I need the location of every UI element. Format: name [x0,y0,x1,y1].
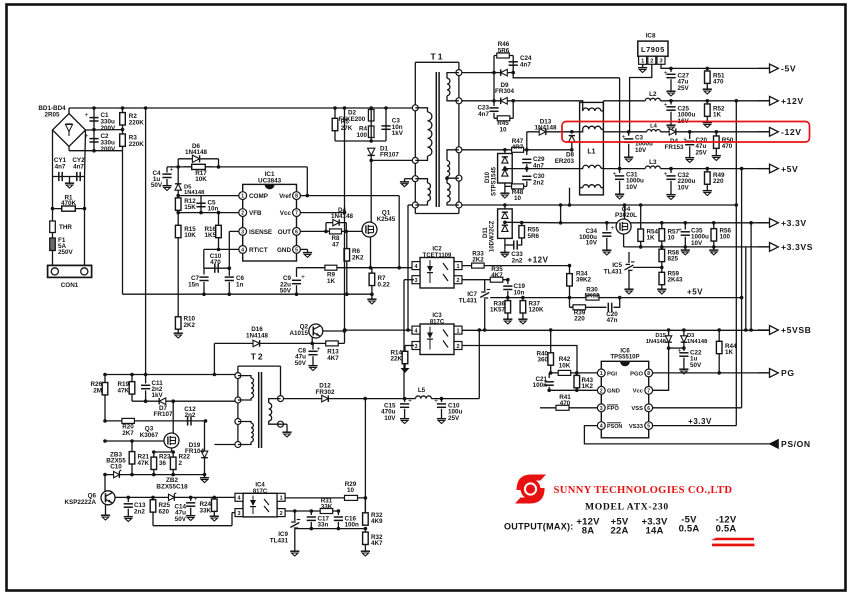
capacitor C7 [199,277,208,280]
capacitor CY2 [77,172,80,181]
pin 8 [293,192,301,200]
junction [293,509,297,513]
wire L1 exit jog [601,129,604,132]
wire GND row [549,389,597,391]
rectifier D11 10DWJ2CZ body [498,209,513,239]
pin 5 [293,246,301,254]
wire C4 gnd stem [166,179,168,183]
inductor L3 [645,166,660,169]
wire T1 aux bot stub [415,201,427,205]
wire Q6 collector [104,475,106,491]
resistor R47 [505,149,527,151]
svg-text:10V: 10V [635,147,647,154]
svg-text:4n7: 4n7 [478,111,489,118]
resistor R37 [520,298,526,316]
inductor L5 [416,396,432,399]
ground IC9 [290,548,299,556]
resistor R15 [175,213,181,238]
wire T1 sec2 top stub [447,150,459,161]
junction [203,473,207,477]
svg-text:STPS1545: STPS1545 [492,166,498,196]
svg-text:10K: 10K [559,362,571,369]
wire to R1 right [84,177,86,209]
svg-text:TPS5510P: TPS5510P [610,355,639,361]
svg-text:3: 3 [659,59,662,65]
diode D11a [502,212,508,218]
svg-text:FR107: FR107 [154,411,173,418]
wire to L5 [405,398,416,400]
svg-text:1N4148: 1N4148 [331,213,354,220]
capacitor C21 [545,382,554,385]
capacitor C3b [622,133,634,142]
svg-text:3: 3 [414,278,417,284]
wire R30 out [604,297,620,299]
wire IC4 pin2 row [285,510,338,512]
svg-text:4: 4 [600,424,603,430]
junction [369,139,373,143]
output -12V [758,127,778,136]
ground R51 [703,86,712,94]
wire T2 sec gnd stub [281,423,288,425]
resistor R33 [472,263,485,268]
wire C20 gnd stem [689,146,691,154]
wire T2 top edge [238,365,281,367]
svg-text:100: 100 [720,234,731,241]
resistor R49 [705,169,711,188]
capacitor C6 [225,277,234,280]
svg-text:1K57: 1K57 [490,307,506,314]
capacitor C3 [381,126,390,129]
svg-text:SUNNY TECHNOLOGIES CO.,LTD: SUNNY TECHNOLOGIES CO.,LTD [554,485,733,496]
transistor Q2 A1015 [309,324,323,338]
svg-text:10: 10 [499,126,507,133]
junction [324,230,328,234]
svg-text:+: + [664,101,668,109]
capacitor C32 [664,170,676,179]
junction [204,419,208,423]
junction [549,371,553,375]
wire 5VSB riser [478,330,480,399]
wire IC8 out [661,64,671,68]
svg-text:2: 2 [241,211,244,217]
junction [682,346,686,350]
ground CY [65,180,74,188]
svg-text:2n2: 2n2 [512,257,523,264]
resistor R17 [184,164,213,169]
wire C33 left [505,244,514,246]
ground R10 [174,330,183,338]
pin 6 [645,404,653,412]
wire C25 gnd stem [670,112,672,122]
svg-text:47: 47 [332,241,340,248]
wire pin4 RTCT row [204,248,243,250]
wire C6 column [228,231,230,275]
svg-text:2K2: 2K2 [184,322,196,329]
junction [130,439,134,443]
wire Q3 source [171,448,173,452]
wire L1 entry jog [580,167,583,169]
svg-text:+12V: +12V [528,256,549,265]
wire C27 stem [670,68,672,72]
resistor R9 [325,265,337,270]
pin 8 [645,369,653,377]
junction [575,389,579,393]
junction [345,292,349,296]
svg-text:200V: 200V [101,125,117,132]
svg-text:1N4148: 1N4148 [646,339,667,345]
junction [310,527,314,531]
inductor L1 body [580,102,604,194]
wire to CON1 right [84,209,86,266]
wire C14 stem [190,497,192,501]
svg-text:0.5A: 0.5A [716,524,737,535]
junction [520,221,524,225]
wire C3b stem [628,132,630,136]
wire source row [154,451,173,453]
svg-text:4n7: 4n7 [520,61,531,68]
wire L1 exit jog [601,187,604,189]
junction [688,130,692,134]
ground C27 [666,88,675,96]
wire PSON net [584,426,769,444]
svg-text:Vcc: Vcc [633,389,644,395]
svg-text:IC6: IC6 [620,348,630,354]
junction [369,106,373,110]
svg-text:PS/ON: PS/ON [781,439,811,449]
svg-text:3: 3 [241,229,244,235]
junction [144,399,148,403]
wire IC5 anode [628,271,630,286]
svg-text:UC3843: UC3843 [258,178,282,185]
wire to IC4 pin3 [153,525,232,527]
wire C3b gnd stem [628,144,630,154]
svg-text:220K: 220K [129,120,145,127]
svg-text:470: 470 [560,400,571,407]
ground C20 [685,155,694,163]
svg-text:L4: L4 [650,124,658,130]
resistor R30 [588,297,604,299]
resistor R48 [512,184,524,189]
junction [667,328,671,332]
wire T2 sec bot stub [269,421,281,424]
capacitor C16 [334,517,343,520]
svg-text:L2: L2 [649,91,657,98]
wire Q2 base stem [311,337,313,343]
wire T1 core b [438,72,440,207]
svg-text:15n: 15n [188,282,199,289]
wire sec1 row [462,72,494,74]
wire D13 left leg [526,132,528,150]
red underline 1 [711,538,754,541]
winding T1 secondary 3 [447,183,450,202]
wire VS33 row [653,425,737,427]
diode D5 [175,184,181,190]
junction [363,397,367,401]
wire to R1 left [52,177,54,209]
wire to C31 riser [513,73,619,78]
junction [682,328,686,332]
svg-text:3: 3 [414,344,417,350]
transformer T1 left pins [412,105,418,111]
capacitor C33 [514,240,517,249]
svg-text:+: + [170,166,174,174]
wire HV+ bus [69,107,413,109]
ground C4 [162,183,171,191]
shunt IC7 TL431 [480,290,490,299]
junction [547,389,551,393]
ground R14 [401,365,410,373]
wire [507,72,513,74]
wire T1 sec2 bot stub [447,177,459,179]
resistor R10 [175,316,181,330]
wire C30 bottom [526,181,528,186]
wire T1 bottom edge [415,213,459,215]
wire C31 riser [619,78,621,169]
svg-text:1n: 1n [236,282,244,289]
wire D8 bottom [571,142,573,150]
junction [503,167,507,171]
svg-text:100: 100 [356,132,367,139]
wire T1 pin stub [408,204,412,206]
wire R39 stub [570,306,574,308]
wire T1 sec3 top stub [446,178,448,183]
resistor R7 [369,268,375,291]
wire IC4 pin3 riser [231,513,233,526]
wire +5V rail a [603,168,645,170]
junction [715,130,719,134]
wire IC5 row [633,266,662,268]
capacitor C1 [85,111,99,121]
wire -5V rail [661,67,770,69]
output -5V [758,64,778,73]
wire T2 w2 top stub [238,422,251,424]
wire +3.3VS rail [624,246,770,248]
svg-text:GND: GND [607,389,620,395]
svg-text:36: 36 [159,460,167,467]
capacitor C2 [85,132,99,142]
junction [575,371,579,375]
junction [706,67,710,71]
svg-text:6: 6 [295,229,298,235]
resistor R13 [312,342,344,344]
svg-text:1K: 1K [725,349,734,356]
svg-text:4n7: 4n7 [73,164,84,171]
ground R56 [709,247,718,255]
resistor R40 [548,330,554,373]
capacitor C17 [307,517,316,520]
ground C35 [681,247,690,255]
rectifier D10 STPS1545 body [498,154,513,184]
wire C16 bottom [337,522,339,529]
wire C16 stem [337,511,339,515]
svg-text:D11: D11 [483,227,489,238]
junction [295,292,299,296]
wire C13 stem [127,497,129,502]
wire C34 gnd stem [606,238,608,247]
junction [717,371,721,375]
output PG [758,369,778,378]
junction [121,128,125,132]
svg-text:2: 2 [456,278,459,284]
wire T1 top edge [415,61,459,63]
wire PG row [653,372,770,374]
wire C8 gnd stem [312,356,314,362]
wire T2 core b [261,372,263,448]
pin 2 [239,209,247,217]
junction [483,328,487,332]
resistor R4 body [368,126,374,138]
junction [310,342,314,346]
junction [92,128,96,132]
junction [503,203,507,207]
svg-text:FR304: FR304 [495,88,514,95]
wire sec3 +5V row [462,149,505,151]
svg-text:TL431: TL431 [270,538,289,545]
resistor R41 [556,405,569,410]
svg-text:+: + [664,69,668,77]
resistor R1 [53,206,85,211]
svg-text:1K: 1K [327,278,336,285]
wire R46 left leg [493,56,495,101]
wire D10 mid out [505,168,527,170]
resistor R31 [320,509,333,514]
svg-text:1: 1 [600,371,603,377]
wire C23 bottom [493,113,495,119]
svg-text:2R05: 2R05 [44,112,60,119]
wire F1-CON1 [52,251,54,266]
junction [343,211,347,215]
junction [171,450,175,454]
svg-text:FR107: FR107 [380,152,399,159]
junction [559,221,563,225]
pin IC4-2 [277,509,285,517]
svg-text:10V: 10V [586,240,598,247]
transistor Q1 K2545 [362,222,377,237]
wire C29 bottom [526,164,528,168]
wire C29 stem [526,150,528,155]
resistor R55 [519,223,525,242]
svg-text:220: 220 [713,178,724,185]
wire 3.3 source row [570,204,737,206]
winding L1 [583,126,601,129]
svg-text:47n: 47n [607,317,618,324]
svg-text:5: 5 [295,247,298,253]
wire pin5 gnd stub [300,248,307,250]
wire C9 stem [296,268,298,277]
junction [660,245,664,249]
wire Vref to R17 [306,167,308,196]
pin 4 [597,422,605,430]
capacitor C25 [664,101,676,110]
wire D10 bot stem [504,183,506,190]
output +12V [758,96,778,105]
wire IC7 cathode [484,280,486,291]
junction [337,509,341,513]
wire T1 sec1 top stub [447,73,459,79]
svg-text:PSON: PSON [607,424,622,430]
wire IC2 pin3 stub [404,279,414,281]
junction [506,278,510,282]
diode D7 [159,398,166,405]
svg-text:25V: 25V [678,85,690,92]
wire D2R4 column [370,108,372,141]
wire D11 mid out [505,221,561,224]
wire T1 prim bot stub [415,156,427,160]
connector CON1 [48,265,92,277]
wire -12V rail a [603,131,646,133]
junction [749,221,753,225]
wire T2 w1 top stub [238,376,251,378]
svg-text:IC3: IC3 [432,313,442,319]
junction [202,292,206,296]
wire C13 gnd stem [127,509,129,514]
ground R37 [518,316,527,324]
ground R32 [361,548,370,556]
svg-text:PG: PG [781,368,795,378]
diode D15 [665,336,671,342]
svg-text:10: 10 [347,487,355,494]
wire T2 w2 bot stub [238,442,251,445]
svg-text:2n2: 2n2 [533,179,544,186]
capacitor C9 [292,273,305,284]
wire IC5 ref [628,252,630,263]
junction [369,266,373,270]
svg-text:3: 3 [600,406,603,412]
wire C21 stem [548,373,550,378]
wire D4 row [326,222,346,224]
diode D13 [539,129,546,136]
svg-text:T2: T2 [251,352,265,362]
wire C8 stem [312,343,314,349]
svg-text:KSP2222A: KSP2222A [64,499,96,506]
wire IC2 pin3 drop [403,280,405,399]
wire +3.3VS drop [745,247,747,330]
junction [667,346,671,350]
transistor Q6 KSP2222A [101,491,115,505]
pin IC4-3 [235,509,243,517]
svg-text:1: 1 [456,328,459,334]
wire C2- bus [69,150,123,152]
junction [706,99,710,103]
junction [144,373,148,377]
svg-text:Vref: Vref [279,193,292,200]
svg-text:A1015: A1015 [289,330,308,337]
wire C17 stem [310,511,312,515]
svg-text:1: 1 [456,264,459,270]
junction [623,203,627,207]
svg-text:TCET1109: TCET1109 [423,253,452,259]
wire C6 gnd [228,282,230,294]
wire Q1 source [370,237,372,268]
ground C34 [602,247,611,255]
wire w4 riser [569,188,571,205]
resistor R43 [574,373,580,390]
pin IC2-3 [412,276,420,284]
resistor R23 [151,452,157,475]
junction [83,207,87,211]
svg-text:THR: THR [59,224,72,231]
wire D4 right leg [345,223,347,232]
optocoupler IC4 817C body [243,493,277,517]
transformer T2 right pins [278,396,284,402]
ground T2 secondary [282,429,291,437]
wire +12V rail a [603,100,645,102]
svg-text:33K: 33K [321,504,333,511]
pin IC2-2 [454,276,462,284]
junction [440,397,444,401]
svg-text:+: + [678,347,682,355]
wire D11 top stem [504,205,506,209]
